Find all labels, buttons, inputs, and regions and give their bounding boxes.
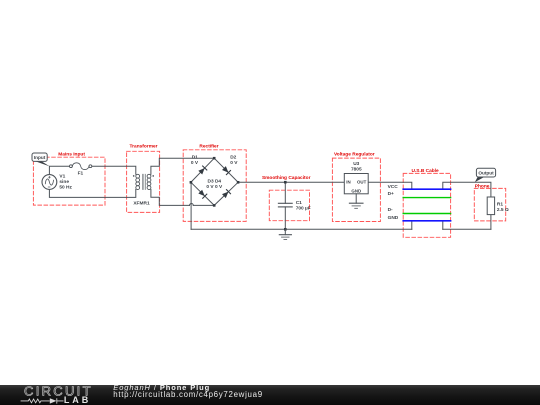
svg-text:Output: Output: [478, 171, 494, 176]
ground under C1: [279, 229, 291, 239]
footer title text: [113, 384, 210, 392]
annotation box Transformer: [127, 143, 160, 212]
node top corner: [213, 157, 216, 160]
wire regulator output to USB VCC stub: [368, 182, 412, 189]
flag Input: [32, 153, 50, 166]
wire V1 bottom to transformer primary bottom: [49, 189, 135, 197]
wire USB VCC right stub to output node: [443, 182, 491, 197]
svg-text:C1: C1: [296, 200, 302, 206]
wire ground rail right section: [443, 228, 491, 230]
svg-text:50 Hz: 50 Hz: [59, 185, 72, 191]
node right corner: [237, 181, 240, 184]
diode D2: [222, 166, 231, 175]
annotation box Voltage Regulator: [332, 152, 380, 222]
svg-text:F1: F1: [78, 170, 84, 176]
capacitor C1: [278, 182, 310, 229]
svg-text:0 V 0 V: 0 V 0 V: [206, 184, 223, 190]
wire R1 bottom lead: [490, 215, 492, 230]
fuse F1: [70, 163, 92, 177]
diode D3: [198, 190, 207, 199]
diode D1: [198, 166, 207, 175]
node C1 bottom: [284, 228, 287, 231]
svg-text:0 V: 0 V: [230, 160, 238, 166]
USB cable wires: [403, 189, 450, 221]
rectifier bridge edges: [191, 158, 238, 205]
wire hop to rectifier bottom corner: [193, 204, 214, 206]
svg-text:OUT: OUT: [357, 179, 367, 184]
svg-text:Transformer: Transformer: [130, 143, 158, 149]
CircuitLab logo: [0, 384, 110, 405]
svg-text:GND: GND: [351, 188, 361, 193]
svg-text:Input: Input: [34, 155, 46, 160]
svg-text:D1: D1: [192, 155, 198, 161]
svg-text:GND: GND: [388, 215, 399, 221]
voltage regulator U3: [344, 161, 368, 194]
svg-text:VCC: VCC: [388, 184, 399, 190]
annotation box Mains Input: [33, 151, 105, 205]
wire ground rail left section: [191, 228, 412, 230]
wire transformer secondary top to rectifier top corner: [151, 158, 214, 174]
svg-text:Phone: Phone: [475, 184, 490, 190]
svg-text:XFMR1: XFMR1: [133, 201, 150, 207]
svg-text:D-: D-: [388, 207, 393, 213]
svg-text:Voltage Regulator: Voltage Regulator: [334, 152, 375, 158]
svg-text:Smoothing Capacitor: Smoothing Capacitor: [262, 175, 311, 181]
footer url text: [113, 391, 263, 399]
node left corner: [190, 181, 193, 184]
wire hop over ground wire: [190, 203, 194, 205]
svg-text:U.S.B Cable: U.S.B Cable: [411, 168, 439, 174]
transformer XFMR1: [133, 174, 154, 207]
svg-text:2.5 Ω: 2.5 Ω: [497, 207, 509, 213]
svg-text:R1: R1: [497, 201, 503, 207]
annotation box U.S.B Cable: [403, 168, 450, 237]
svg-text:D+: D+: [388, 191, 394, 197]
svg-text:700 µF: 700 µF: [296, 205, 311, 211]
wire transformer secondary bottom to hop: [151, 190, 190, 206]
wire USB GND right stub: [442, 221, 444, 230]
ground under U3: [349, 194, 363, 209]
wire rectifier right corner to regulator input: [238, 181, 344, 183]
wire fuse to transformer primary top: [92, 166, 136, 174]
rectifier labels: [191, 155, 238, 191]
annotation box Phone: [474, 184, 505, 221]
svg-text:Rectifier: Rectifier: [199, 143, 218, 149]
svg-text:D3 D4: D3 D4: [207, 178, 221, 184]
node C1 top: [284, 181, 287, 184]
svg-text:LAB: LAB: [64, 395, 91, 405]
flag Output: [475, 168, 496, 182]
footer bar: [0, 385, 540, 405]
resistor R1: [487, 197, 509, 215]
USB cable pin labels: [388, 184, 399, 221]
node bottom corner: [213, 204, 216, 207]
wire rectifier left corner to ground rail: [190, 182, 192, 229]
svg-text:0 V: 0 V: [191, 160, 199, 166]
svg-text:7805: 7805: [351, 167, 362, 173]
wire USB GND left stub: [411, 221, 413, 230]
svg-text:sine: sine: [59, 179, 69, 185]
wire V1 top to fuse: [49, 166, 69, 174]
svg-text:IN: IN: [346, 179, 350, 184]
svg-text:D2: D2: [230, 155, 236, 161]
annotation box Smoothing Capacitor: [262, 175, 311, 221]
svg-text:V1: V1: [59, 173, 65, 179]
svg-text:U3: U3: [353, 161, 359, 167]
svg-text:Mains Input: Mains Input: [58, 151, 85, 157]
annotation box Rectifier: [183, 143, 246, 221]
voltage source V1: [42, 173, 73, 190]
diode D4: [222, 190, 231, 199]
